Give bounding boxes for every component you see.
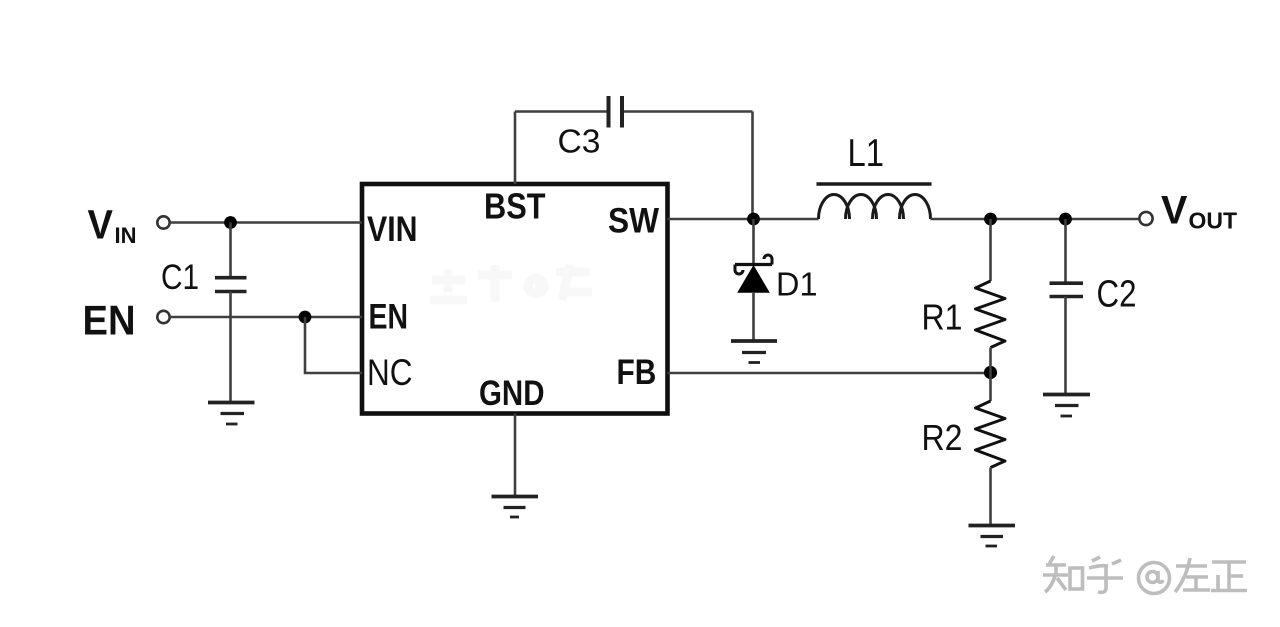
@ [1139, 563, 1170, 594]
svg-text:NC: NC [367, 352, 413, 393]
diode D1 (schottky) [752, 219, 755, 266]
wire FB pin to divider [668, 372, 991, 375]
正 [1212, 560, 1246, 564]
resistor R1 [989, 219, 992, 281]
op-amp U1 (IC body box) [362, 184, 668, 414]
node junction EN/NC [299, 311, 312, 324]
wire L1 to VOUT [931, 218, 1140, 221]
svg-text:D1: D1 [776, 267, 818, 304]
svg-text:V: V [1161, 189, 1188, 233]
svg-text:C1: C1 [161, 258, 199, 297]
svg-text:IN: IN [115, 223, 137, 248]
wire C3 down to SW node [751, 112, 754, 220]
node junction FB/R1/R2 [984, 366, 997, 379]
capacitor C2 [1064, 219, 1067, 283]
watermark 知乎 @左正 (hand drawn strokes) [1043, 556, 1247, 594]
wire NC loop [305, 317, 362, 373]
wire VIN terminal to VIN pin [170, 221, 362, 224]
左 [1176, 564, 1207, 568]
svg-text:VIN: VIN [367, 209, 418, 249]
node junction R1 top [984, 213, 997, 226]
乎 [1092, 557, 1100, 561]
wire BST stub [514, 112, 517, 185]
node junction C2 top [1059, 213, 1072, 226]
svg-text:C2: C2 [1097, 274, 1137, 316]
svg-text:R1: R1 [922, 297, 963, 338]
svg-text:FB: FB [617, 353, 657, 392]
ground (below C1) [208, 403, 255, 425]
node junction VIN/C1 [224, 216, 237, 229]
wire SW pin to L1 [668, 218, 819, 221]
faint erased watermark smudge inside IC [430, 265, 592, 302]
ground (below C2) [1043, 395, 1090, 417]
ground (below D1) [731, 341, 777, 363]
svg-text:C3: C3 [558, 123, 601, 160]
wire EN terminal to EN pin [170, 316, 362, 319]
svg-text:EN: EN [369, 298, 409, 337]
node EN terminal [157, 311, 169, 323]
ground (below GND pin) [492, 497, 539, 518]
resistor R2 [989, 373, 992, 401]
wire GND stub [514, 414, 517, 497]
capacitor C3 [515, 110, 607, 113]
svg-text:OUT: OUT [1189, 208, 1238, 234]
node junction SW/D1 [747, 213, 760, 226]
node VOUT terminal [1139, 212, 1152, 225]
capacitor C1 [229, 223, 232, 278]
svg-text:R2: R2 [922, 417, 963, 458]
知 mouth [1070, 568, 1083, 589]
inductor L1 [817, 182, 932, 185]
svg-text:L1: L1 [848, 132, 885, 175]
svg-text:EN: EN [83, 297, 136, 344]
node VIN terminal [157, 216, 169, 228]
知 left radical [1048, 556, 1054, 566]
svg-text:GND: GND [479, 374, 545, 413]
svg-text:BST: BST [484, 186, 546, 227]
ground (below R2) [969, 526, 1016, 547]
svg-text:V: V [88, 202, 114, 248]
svg-text:SW: SW [608, 202, 659, 241]
